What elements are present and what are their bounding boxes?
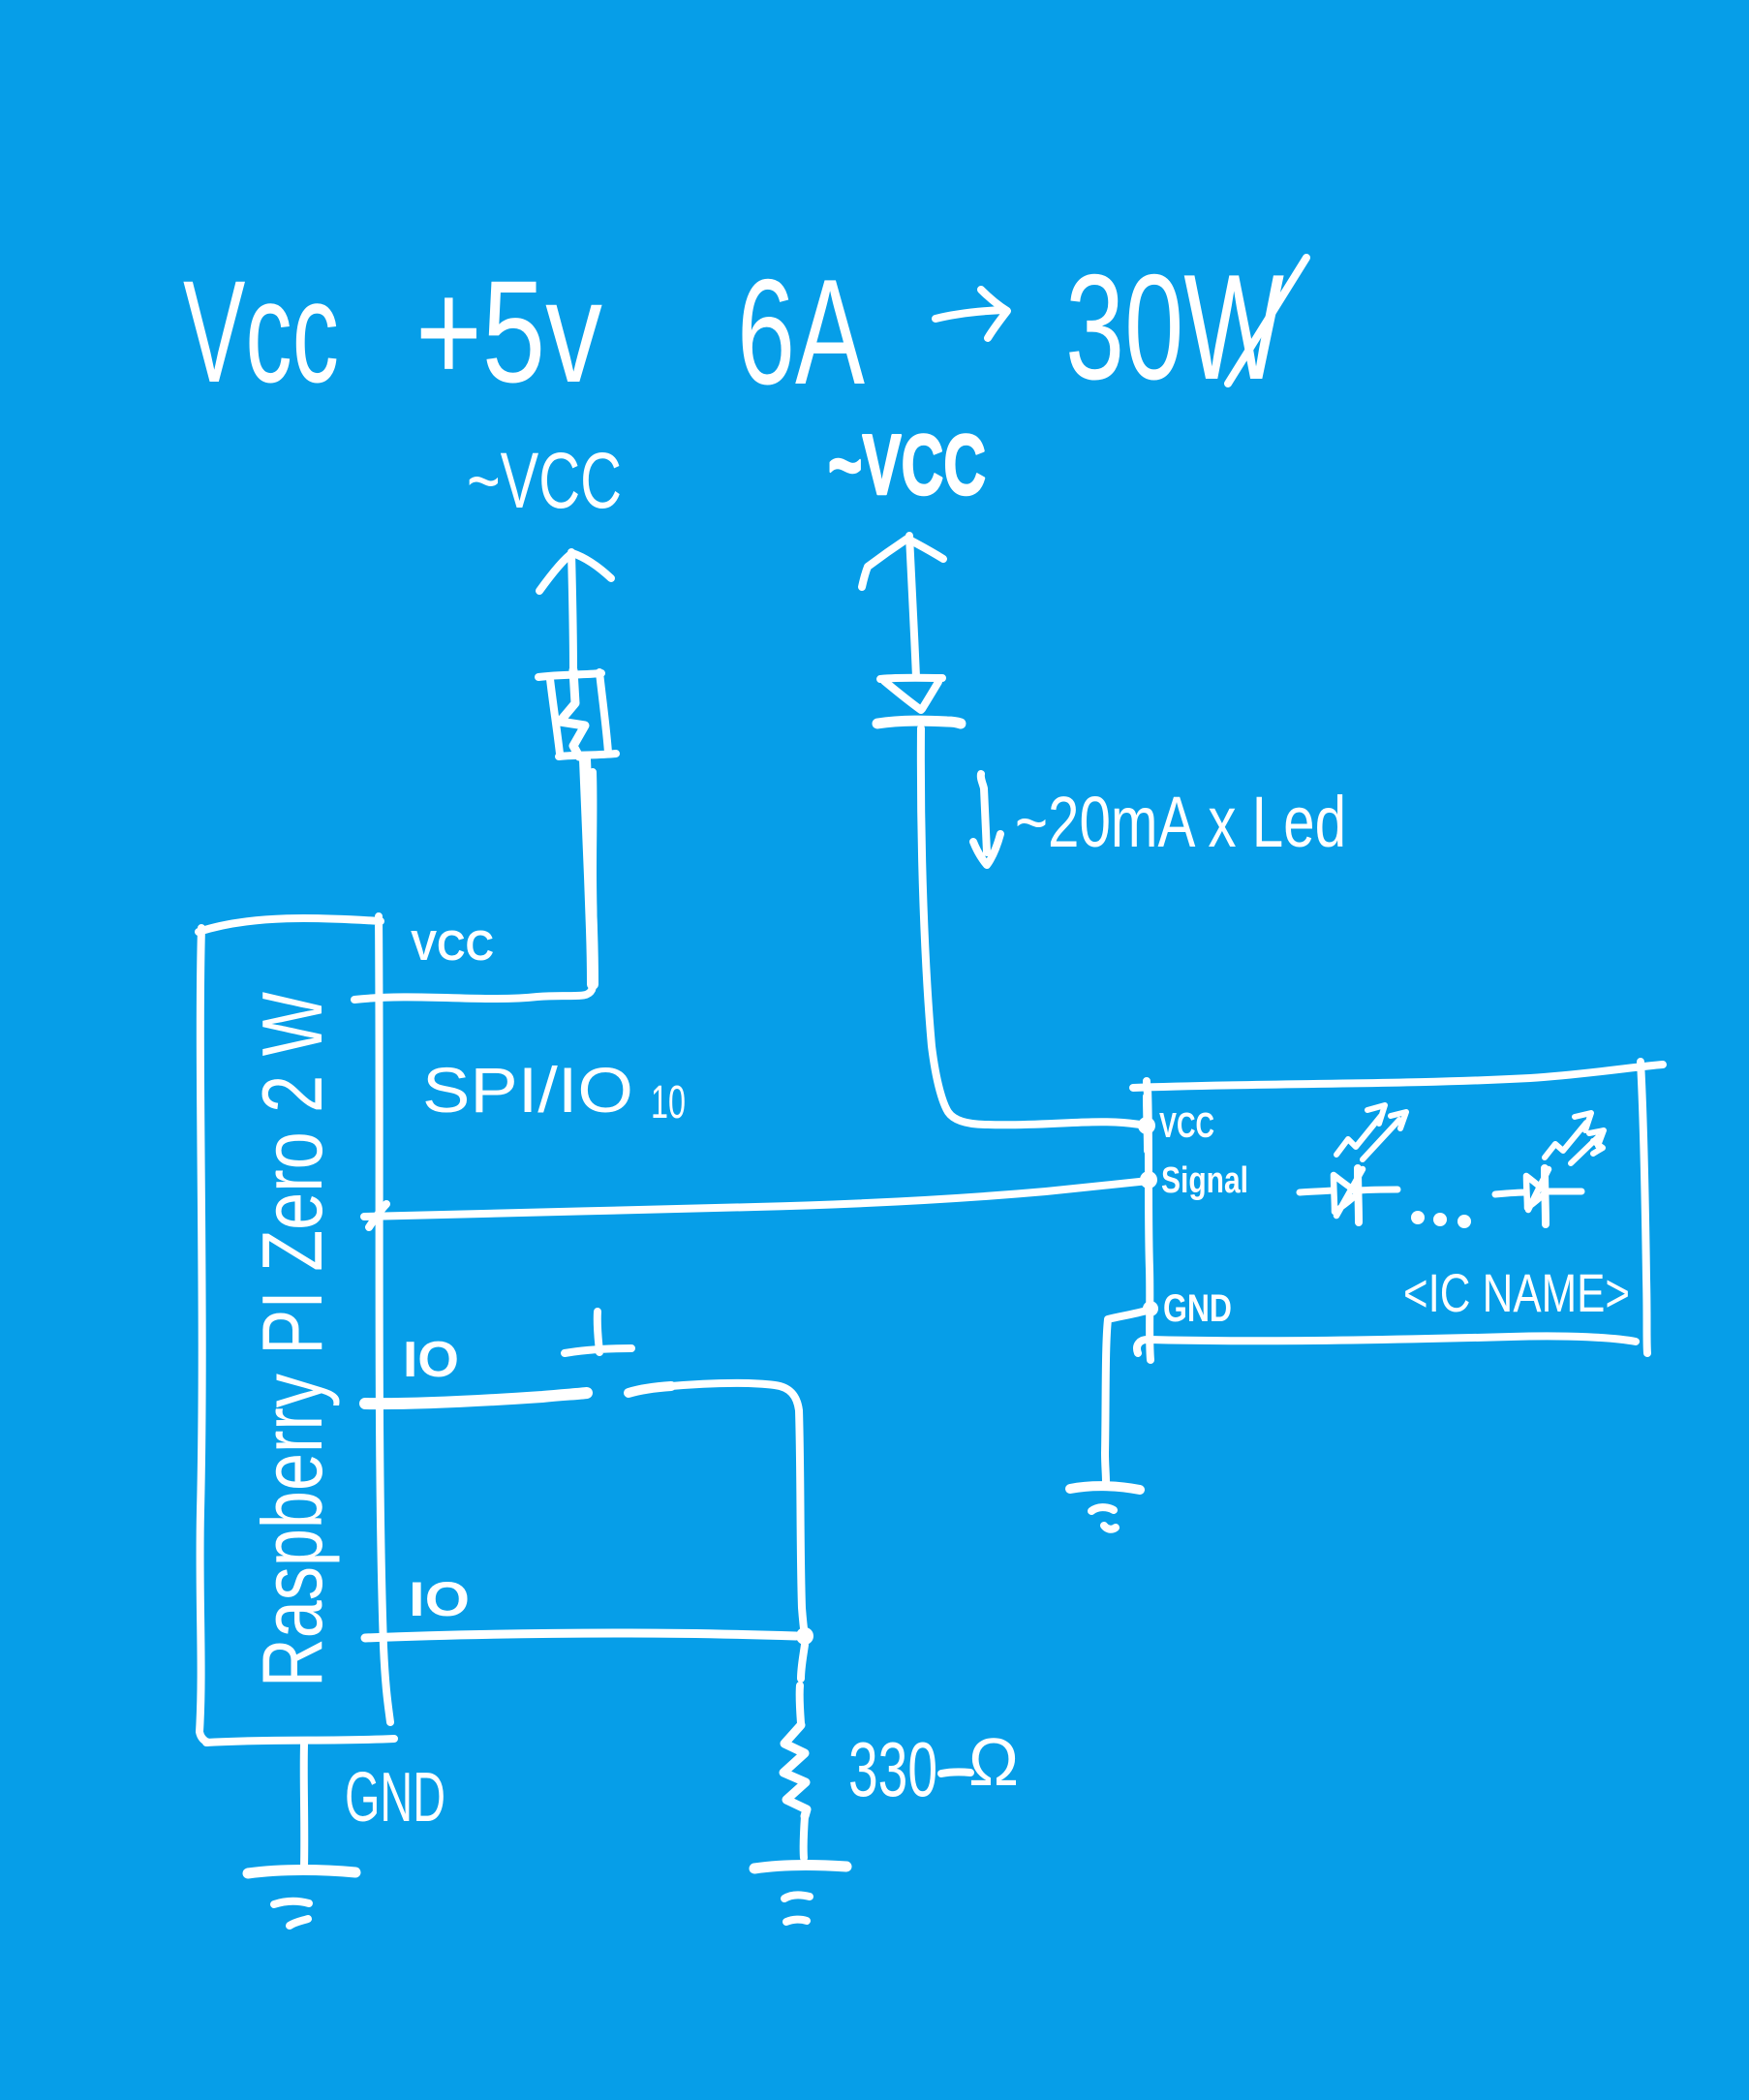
ground below resistor xyxy=(754,1865,846,1868)
power flag VCC right: shaft xyxy=(909,536,916,677)
LED D2 anode wire xyxy=(1300,1190,1333,1192)
fuse F1 squiggle xyxy=(560,670,585,757)
ground below Pi xyxy=(248,1870,355,1874)
svg-text:~20mA x Led: ~20mA x Led xyxy=(1015,782,1346,862)
wire button to junction xyxy=(651,1383,805,1636)
svg-text:+5v: +5v xyxy=(415,250,602,413)
power flag VCC left: shaft xyxy=(571,552,573,670)
LED D2 out wire xyxy=(1360,1189,1397,1190)
svg-text:Vcc: Vcc xyxy=(183,250,339,413)
header net label Vcc +5v xyxy=(183,250,602,413)
wire IO to button left contact xyxy=(365,1393,587,1404)
LED D3 triangle xyxy=(1526,1169,1549,1210)
svg-text:<IC NAME>: <IC NAME> xyxy=(1403,1262,1630,1323)
header power 30W xyxy=(1065,243,1284,411)
svg-text:330: 330 xyxy=(848,1726,937,1812)
svg-text:~VCC: ~VCC xyxy=(828,417,986,512)
svg-text:GND: GND xyxy=(345,1759,445,1837)
svg-text:GND: GND xyxy=(1163,1287,1232,1330)
LED D2 cathode bar xyxy=(1358,1168,1359,1222)
resistor R1 zigzag xyxy=(783,1725,807,1816)
push button S1 actuator xyxy=(565,1312,631,1353)
svg-text:VCC: VCC xyxy=(411,922,494,970)
svg-text:30W: 30W xyxy=(1065,243,1284,411)
junction node xyxy=(796,1627,813,1645)
svg-text:SPI/IO: SPI/IO xyxy=(422,1054,633,1126)
LED D3 arrows xyxy=(1545,1113,1604,1163)
ground IC xyxy=(1070,1486,1140,1490)
svg-text:IO: IO xyxy=(403,1332,459,1388)
wire diode to IC VCC pin xyxy=(921,728,1147,1126)
power flag VCC right: arrowhead xyxy=(862,539,943,587)
diode D1 cathode bar xyxy=(877,721,961,724)
svg-text:Raspberry PI Zero 2 W: Raspberry PI Zero 2 W xyxy=(244,992,340,1687)
LED D2 arrows xyxy=(1336,1105,1406,1159)
header arrow xyxy=(936,290,1007,338)
IC pin GND node xyxy=(1143,1301,1158,1316)
current arrow ~20mA xyxy=(973,774,1000,865)
diode D1 triangle xyxy=(884,681,938,710)
LED D3 anode wire xyxy=(1495,1192,1526,1194)
dots ... xyxy=(1411,1211,1425,1224)
label 330 ohm xyxy=(848,1724,1019,1812)
fuse F1 body xyxy=(538,672,616,757)
svg-text:10: 10 xyxy=(651,1077,686,1128)
diode D1 top bar xyxy=(880,678,942,679)
wire fuse to Pi VCC pin xyxy=(354,772,594,1000)
resistor R1 lead xyxy=(800,1645,805,1723)
IC U1 body xyxy=(1133,1062,1663,1360)
LED D3 cathode bar xyxy=(1545,1168,1546,1224)
power flag VCC left: arrowhead xyxy=(539,553,611,591)
signal wire SPI/IO10 to IC Signal xyxy=(364,1181,1149,1217)
resistor R1 lower lead xyxy=(804,1816,805,1858)
svg-text:VCC: VCC xyxy=(1159,1105,1214,1145)
IC pin VCC node xyxy=(1138,1117,1155,1134)
svg-text:Signal: Signal xyxy=(1161,1160,1248,1201)
svg-text:Ω: Ω xyxy=(968,1724,1019,1800)
svg-text:IO: IO xyxy=(409,1572,470,1626)
fuse F1 lower stub xyxy=(585,759,593,984)
push button S1 right contact xyxy=(629,1386,671,1393)
wire IC GND to ground xyxy=(1105,1311,1147,1482)
pin GND wire xyxy=(300,1745,309,1868)
Raspberry Pi Zero 2 W module: body xyxy=(199,916,394,1743)
signal wire pin tick xyxy=(369,1204,386,1227)
header W slash xyxy=(1228,258,1306,384)
IC pin VCC tick xyxy=(1147,1096,1148,1151)
svg-text:6A: 6A xyxy=(737,248,865,416)
wire IO to junction xyxy=(365,1633,796,1638)
LED D3 out wire xyxy=(1547,1189,1581,1195)
IC pin Signal node xyxy=(1140,1171,1157,1189)
label 330 ohm dash xyxy=(941,1772,970,1774)
LED D2 triangle xyxy=(1334,1169,1363,1216)
svg-text:~VCC: ~VCC xyxy=(467,437,622,525)
